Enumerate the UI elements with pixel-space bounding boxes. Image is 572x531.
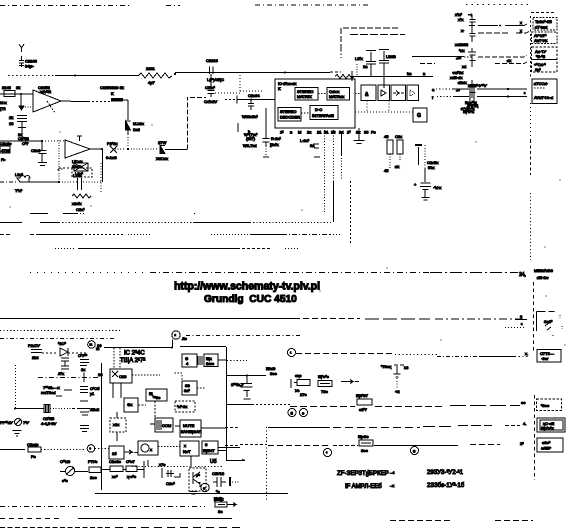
wire into IC pin y99 — [225, 96, 275, 104]
node: wire corner up right of top-left — [341, 28, 405, 58]
node pin circle 1 — [288, 349, 296, 357]
sub-block dashed C — [110, 412, 126, 441]
svg-text:ТиЗ≤²·ЗБ: ТиЗ≤²·ЗБ — [535, 19, 552, 24]
wire: UB supply — [210, 459, 245, 465]
svg-text:W³(7)x³: W³(7)x³ — [244, 132, 258, 137]
resistor D2265 — [358, 434, 373, 453]
amplifier box row A3 — [391, 85, 406, 101]
svg-text:2k: 2k — [16, 85, 20, 90]
svg-text:³7Зеҳ: ³7Зеҳ — [381, 364, 391, 369]
svg-text:x2x: x2x — [113, 422, 119, 427]
ground below C2254 — [422, 198, 430, 201]
connector box J1a ceKo — [533, 18, 557, 31]
node: dashed branch at x240 — [240, 72, 262, 91]
svg-text:2²: 2² — [520, 441, 524, 446]
sub-block dc interface — [301, 106, 338, 120]
scan speckles — [9, 124, 565, 418]
bus wire y248 — [55, 248, 300, 250]
diode D2260 — [58, 341, 88, 356]
wire: bottom dashed line y527 — [0, 527, 240, 529]
svg-text:C2253220 3k: C2253220 3k — [100, 85, 124, 90]
svg-text:АУ≥Т·Уо·≤: АУ≥Т·Уо·≤ — [534, 95, 554, 100]
amplifier box row A2 — [378, 85, 390, 101]
svg-text:kЗ: kЗ — [404, 365, 409, 370]
svg-text:50x: 50x — [428, 165, 434, 170]
wire: vertical dotted x266 — [240, 427, 267, 500]
svg-text:x·: x· — [461, 28, 464, 33]
svg-text:Щ³З²≤: Щ³З²≤ — [463, 109, 475, 114]
svg-text:x≤2262: x≤2262 — [455, 42, 469, 47]
transistor Q2301 — [189, 468, 206, 494]
svg-text:≤2≤x: ≤2≤x — [458, 80, 467, 85]
node pin circle 3 — [324, 449, 332, 457]
svg-text:D·C: D·C — [315, 107, 322, 112]
svg-text:³: ³ — [326, 451, 328, 456]
svg-text:IC 2³4С: IC 2³4С — [124, 351, 145, 357]
capacitor C2265 — [244, 108, 281, 157]
svg-text:С2x≤е: С2x≤е — [27, 442, 39, 447]
sub-block mid 55 — [174, 373, 205, 395]
svg-text:C2x³: C2x³ — [76, 207, 85, 212]
svg-text:РР²³≤У: РР²³≤У — [0, 420, 13, 425]
svg-text:Л²x: Л²x — [58, 371, 64, 376]
connector box IC socket — [537, 418, 565, 432]
svg-text:е³е: е³е — [62, 478, 69, 483]
svg-text:еЗе²: еЗе² — [542, 440, 551, 445]
svg-text:¹2С³: ¹2С³ — [58, 341, 66, 346]
capacitor C2261 — [58, 358, 69, 376]
connector box J3 video/audio — [532, 79, 557, 104]
svg-text:2x: 2x — [356, 130, 360, 135]
svg-text:MATR≤x: MATR≤x — [329, 94, 344, 99]
wire pair to connector J1 — [478, 20, 529, 33]
node pin circles 5 6 — [288, 409, 308, 417]
op-amp U2201 — [20, 85, 71, 113]
wire: IC pin drop x333 — [333, 130, 335, 222]
svg-text:27W: 27W — [158, 140, 166, 145]
amplifier box row A4 — [407, 85, 419, 101]
diode D2202 — [126, 121, 144, 149]
wire: bottom right dashes y520 — [390, 520, 533, 522]
box G detector — [355, 94, 427, 123]
capacitor C2016 — [212, 471, 240, 494]
wire: dotted line y330 — [0, 330, 120, 332]
sub-block stereo matrix — [295, 88, 318, 101]
svg-text:З: З — [291, 411, 294, 416]
svg-text:4: 4 — [186, 361, 189, 366]
svg-text:xxV42: xxV42 — [40, 89, 52, 94]
antenna stub V2201 — [19, 44, 24, 52]
capacitor C2723 — [78, 353, 89, 372]
labels below video pair — [463, 83, 487, 114]
svg-text:hn: hn — [407, 71, 411, 76]
svg-text:≤ТСО≤·: ≤ТСО≤· — [534, 81, 548, 86]
capacitor C2215 — [355, 51, 376, 77]
IC pin numbers bottom row — [280, 130, 376, 135]
sub-block top mid Dx — [204, 354, 226, 367]
connector stubs left edge — [0, 100, 11, 162]
svg-text:x7е: x7е — [159, 462, 166, 467]
svg-text:Ре: Ре — [31, 454, 36, 459]
svg-text:f: f — [432, 95, 434, 100]
svg-text:–4: –4 — [390, 470, 395, 475]
svg-text:M-x: M-x — [0, 100, 7, 105]
svg-text:7Зе: 7Зе — [321, 389, 329, 394]
wire: second stage input y141 — [0, 136, 65, 146]
wire: pin9 input y449 — [0, 442, 109, 459]
svg-text:Ps: Ps — [371, 130, 376, 135]
connector box tuner — [537, 350, 561, 363]
bus wire y234 — [0, 234, 340, 236]
svg-text:С2е²: С2е² — [166, 481, 175, 486]
svg-text:C²7: C²7 — [22, 141, 29, 146]
resistor R2216 zigzag on wire to IF — [335, 64, 433, 81]
electrolytic capacitor C2380 — [231, 376, 253, 400]
sub-block comp E — [150, 418, 173, 432]
svg-text:34p▸: 34p▸ — [25, 64, 34, 69]
svg-text:Щ2³З7: Щ2³З7 — [356, 393, 369, 398]
capacitor C2259 — [59, 163, 101, 192]
transistor T2 right edge cluster — [505, 282, 562, 352]
bus wire y222 — [0, 222, 333, 224]
sub-block dashed F — [175, 401, 195, 412]
svg-text:МЕЗ≥²≤ЗЗ: МЕЗ≥²≤ЗЗ — [534, 268, 553, 273]
wire: bottom solid line y518 — [0, 518, 232, 520]
svg-text:F▸: F▸ — [1, 157, 5, 162]
svg-text:M.≥2x: M.≥2x — [133, 121, 144, 126]
resistor R2201 (zigzag on main wire) — [138, 66, 172, 85]
svg-text:е: е — [302, 411, 305, 416]
svg-text:Ле: Ле — [182, 336, 188, 341]
svg-text:L(Р)АЩС: L(Р)АЩС — [207, 77, 224, 82]
svg-text:··:: ··: — [468, 12, 472, 17]
svg-text:¹¹: ¹¹ — [90, 343, 93, 348]
svg-text:е2³7: е2³7 — [359, 407, 368, 412]
svg-text:С2З: С2З — [119, 374, 127, 379]
wire: long separator line y318 — [0, 318, 525, 321]
wire to connector J2 — [412, 56, 527, 64]
svg-text:M: M — [298, 130, 301, 135]
svg-text:¹: ¹ — [290, 351, 292, 356]
svg-text:G: G — [417, 113, 421, 119]
svg-text:30: 30 — [364, 130, 369, 135]
node pin circle 2 at top of IF IC — [172, 331, 188, 341]
wire: top pin wire y347 — [96, 340, 226, 352]
inductor L2262 label — [300, 138, 320, 157]
svg-text:IF AМРЛ·ЕЕб: IF AМРЛ·ЕЕб — [345, 484, 382, 490]
svg-text:2x: 2x — [81, 367, 85, 372]
wire: feedback riser x187 — [188, 97, 207, 150]
svg-text:29ЗУЗ·³У2·¹1: 29ЗУЗ·³У2·¹1 — [427, 470, 464, 476]
svg-text:1²³бx,У: 1²³бx,У — [231, 382, 244, 387]
wire: line from pin1 to tuner box — [296, 351, 530, 357]
svg-text:C2x8: C2x8 — [31, 148, 41, 153]
svg-text:ҳ·е³е: ҳ·е³е — [127, 474, 137, 479]
svg-text:27е: 27е — [300, 392, 307, 397]
sub-block osc H — [130, 441, 180, 455]
svg-text:ZF·ЗEРЗТქБРКЕР: ZF·ЗEРЗТქБРКЕР — [337, 470, 389, 477]
arrow mark — [341, 380, 359, 384]
svg-text:2еге: 2еге — [206, 361, 215, 366]
svg-text:З: З — [413, 449, 416, 454]
svg-text:K: K — [111, 91, 114, 96]
svg-text:2³: 2³ — [347, 130, 351, 135]
svg-text:С²³≤З: С²³≤З — [60, 459, 71, 464]
sub-block vert K — [202, 441, 240, 454]
svg-text:x.: x. — [525, 351, 528, 356]
IF IC block IC2560 TDA2170 — [102, 347, 227, 490]
svg-text:Cx²x2V: Cx²x2V — [204, 99, 217, 104]
wire: line y445 — [225, 441, 524, 446]
diode D2204 — [128, 140, 187, 161]
amplifier box row A1 — [361, 85, 376, 101]
svg-text:³Б·¹Б: ³Б·¹Б — [536, 54, 546, 59]
potentiometer P2202 — [106, 141, 129, 160]
svg-text:·Зег: ·Зег — [541, 356, 549, 361]
svg-text:4.: 4. — [523, 421, 526, 426]
svg-text:≤x: ≤x — [507, 58, 511, 63]
label C2228 — [41, 416, 57, 426]
top border dashed line — [0, 5, 556, 18]
svg-text:0-1uS: 0-1uS — [106, 155, 117, 160]
connector box J1b — [532, 32, 558, 44]
sub-block NF J — [180, 441, 199, 456]
svg-text:4·4,5·5V: 4·4,5·5V — [41, 421, 57, 426]
capacitor C2218 on main wire — [206, 58, 224, 82]
wire: right edge dashed vertical bottom — [534, 395, 536, 480]
svg-text:2k4: 2k4 — [32, 355, 39, 360]
svg-text:INTERFA≤E: INTERFA≤E — [312, 113, 334, 118]
ground at IC pin 26 — [354, 128, 365, 144]
svg-text:Л²≤³Щ: Л²≤³Щ — [467, 103, 478, 108]
svg-text:24,: 24, — [519, 272, 526, 278]
svg-text:²: ² — [175, 333, 177, 338]
svg-text:n: n — [290, 130, 292, 135]
svg-text:C2²x²: C2²x² — [205, 85, 215, 90]
svg-text:L·2x²: L·2x² — [300, 138, 310, 143]
svg-text:x³x: x³x — [458, 17, 463, 22]
wire: dash-dot into pin 2 — [0, 336, 300, 339]
capacitor C2219 — [204, 74, 240, 104]
capacitor C2352 — [159, 462, 180, 486]
svg-text:n: n — [423, 71, 425, 76]
IC U2200 main block — [275, 79, 355, 128]
svg-text:⊝x: ⊝x — [127, 402, 132, 407]
connector box AFC — [537, 399, 562, 411]
svg-text:x≤: x≤ — [462, 64, 467, 69]
svg-text:C2x: C2x — [395, 134, 402, 139]
svg-text:2ее: 2ее — [90, 475, 97, 480]
svg-text:45: 45 — [384, 134, 389, 139]
wire: input y408 — [14, 405, 98, 413]
resistor C2253 220k output network — [71, 85, 128, 120]
svg-text:P2²2x: P2²2x — [107, 141, 117, 146]
node pin circle 5b — [411, 447, 419, 455]
svg-text:2ЗЗбе·1У²·1б: 2ЗЗбе·1У²·1б — [427, 483, 465, 489]
svg-text:1n: 1n — [363, 64, 367, 69]
svg-text:+: + — [414, 182, 417, 187]
wire: bottom-left dash-dot y506 — [0, 497, 236, 515]
svg-text:[2x²x: [2x²x — [270, 142, 279, 147]
resistor D2230 — [318, 374, 332, 394]
svg-text:LΒ2B: LΒ2B — [386, 54, 396, 59]
resistor R2248 on op-amp input — [0, 85, 33, 97]
capacitor C2247 stack below op-amp — [9, 94, 27, 140]
svg-text:≥Л²≤³·У³¹У: ≥Л²≤³·У³¹У — [468, 83, 487, 88]
svg-text:DECODER: DECODER — [280, 115, 300, 120]
capacitor divider 375x — [381, 364, 409, 394]
svg-text:2248: 2248 — [2, 85, 12, 90]
svg-text:²: ² — [521, 322, 523, 327]
capacitor C2264 — [238, 93, 260, 148]
svg-text:C²7²³: C²7²³ — [78, 353, 88, 358]
svg-text:Зее: Зее — [270, 371, 278, 376]
node pin circle 11 — [88, 341, 103, 349]
resistor R2346 — [88, 459, 101, 480]
svg-text:4p7: 4p7 — [148, 80, 155, 85]
svg-text:45: 45 — [384, 168, 389, 173]
filter box L2205 — [58, 163, 88, 172]
svg-text:Зе: Зе — [218, 509, 223, 514]
wire: right edge dashed vertical middle — [530, 140, 532, 260]
svg-text:Grundig CUC 4510: Grundig CUC 4510 — [204, 294, 297, 305]
electrolytic C2264b — [80, 407, 100, 432]
wire pair video out to J3 — [432, 84, 527, 101]
svg-text:IC·2²xx·≤x: IC·2²xx·≤x — [278, 81, 296, 86]
svg-text:МUТЕ: МUТЕ — [183, 423, 195, 428]
sub-block mute bandgap G — [175, 420, 226, 437]
svg-text:Uб: Uб — [210, 459, 217, 465]
svg-text:²≤x: ²≤x — [459, 48, 465, 53]
wire: dashed line y406 — [227, 400, 526, 407]
capacitor C2256 — [415, 145, 438, 175]
dashed horizontal pin 16 — [16, 365, 104, 408]
svg-text:C2218: C2218 — [206, 58, 219, 63]
svg-text:БАНЩGАП: БАНЩGАП — [181, 429, 202, 434]
resistor R2262 vertical pair — [384, 134, 403, 173]
caption part numbers — [427, 470, 465, 489]
caption ZF-VERSTAERKER — [337, 470, 395, 490]
wire: right edge dashed vertical top — [530, 16, 532, 140]
svg-text:http://www.schematy-tv.piv.pl: http://www.schematy-tv.piv.pl — [174, 281, 320, 293]
label group 773Gb — [41, 385, 72, 396]
wire: IC pin drop x324 — [324, 130, 326, 212]
wire: measurement dash-dot line y272 — [30, 268, 553, 280]
svg-text:гекТЗе≤: гекТЗе≤ — [41, 390, 56, 395]
wire: AGC y375 right of IC — [227, 361, 278, 377]
svg-text:2¹: 2¹ — [280, 130, 284, 135]
capacitor C2266 u1 — [80, 386, 100, 401]
svg-text:У³: У³ — [196, 473, 201, 478]
wire: IC pin drop x350 — [350, 181, 352, 245]
svg-text:Щx²е²x: Щx²е²x — [541, 426, 554, 431]
svg-text:21: 21 — [317, 130, 322, 135]
sub-block top mid 7-4 — [182, 354, 202, 367]
node pin circle 10 — [201, 483, 209, 491]
svg-text:²: ² — [524, 91, 526, 96]
svg-text:L2x²: L2x² — [15, 172, 23, 177]
svg-text:³: ³ — [90, 447, 92, 452]
svg-text:Зx²: Зx² — [184, 388, 190, 393]
svg-text:C2x8s: C2x8s — [0, 141, 11, 146]
svg-text:1ud: 1ud — [133, 127, 140, 132]
svg-text:≤Е·Зx·: ≤Е·Зx· — [537, 275, 549, 280]
svg-text:С2еЗе: С2еЗе — [109, 459, 122, 464]
svg-text:a: a — [432, 87, 435, 92]
svg-text:xе³: xе³ — [112, 474, 118, 479]
svg-text:K: K — [278, 86, 281, 91]
svg-text:2k: 2k — [9, 115, 13, 120]
sub-block D 1257 — [138, 389, 167, 418]
svg-text:С²е7: С²е7 — [126, 459, 135, 464]
capacitor C2257 to ground — [31, 141, 47, 166]
resistor network x7x — [291, 373, 310, 397]
svg-text:Л2x≤: Л2x≤ — [90, 407, 100, 412]
svg-text:Зее: Зее — [361, 448, 369, 453]
feedback network R2255 below op-amp U2202 — [59, 159, 92, 177]
svg-text:x: x — [184, 443, 186, 448]
svg-text:Е2З≤: Е2З≤ — [214, 497, 224, 502]
sub-block demod A — [110, 348, 160, 383]
svg-text:1б: 1б — [112, 451, 117, 456]
svg-text:Щ²е³е: Щ²е³е — [318, 374, 330, 379]
sub-block input I — [109, 446, 132, 459]
svg-text:ЩеЗе: ЩеЗе — [358, 434, 369, 439]
site caption text — [174, 281, 320, 306]
capacitor C2216 — [379, 50, 396, 89]
bus wire y213 — [30, 213, 197, 215]
resistor R2347 pair — [101, 459, 144, 479]
svg-text:STEREO: STEREO — [280, 109, 296, 114]
svg-text:NеТ: NеТ — [183, 449, 191, 454]
wire: main audio line to the right — [174, 72, 341, 76]
coil L2263 cluster — [456, 80, 477, 111]
svg-text:x: x — [520, 28, 522, 33]
svg-text:X≤C≤x: X≤C≤x — [156, 156, 168, 161]
svg-text:С2У16: С2У16 — [212, 471, 225, 476]
svg-text:Р2≤7У: Р2≤7У — [28, 343, 40, 348]
svg-text:[72: [72 — [0, 106, 6, 111]
resistor R2270 2k4 — [28, 343, 58, 360]
capacitor C2246 34p — [19, 56, 38, 69]
svg-text:2201: 2201 — [146, 66, 156, 71]
svg-text:еҳе: еҳе — [295, 373, 302, 378]
svg-text:+2: +2 — [395, 389, 400, 394]
svg-text:MATRIX: MATRIX — [297, 94, 312, 99]
connector box J2 — [532, 47, 558, 72]
svg-text:TЩA 2¹7²: TЩA 2¹7² — [120, 358, 145, 364]
svg-text:x: x — [520, 20, 522, 25]
svg-text:T²x²: T²x² — [15, 188, 23, 193]
svg-text:СОМ: СОМ — [162, 423, 171, 428]
svg-text:W32x5x¹: W32x5x¹ — [242, 114, 258, 119]
svg-text:З: З — [205, 442, 208, 447]
svg-text:16: 16 — [98, 372, 103, 377]
svg-text:R·2x¹: R·2x¹ — [271, 136, 281, 141]
svg-text:0: 0 — [520, 314, 523, 319]
svg-text:≤Т·≥x≤: ≤Т·≥x≤ — [535, 25, 548, 30]
potentiometer P2340 — [0, 419, 30, 426]
svg-text:C2x64: C2x64 — [248, 93, 260, 98]
electrolytic capacitor C2254 — [414, 168, 441, 197]
svg-text:Р7Уе: Р7Уе — [88, 459, 98, 464]
svg-text:–x: –x — [390, 483, 394, 488]
wire: main audio line left segment — [8, 75, 138, 77]
wire: IC pin drop x341 — [341, 131, 343, 180]
sub-block stereo decoder — [278, 108, 301, 122]
coil L2261 cluster — [450, 48, 476, 80]
op-amp U2202 — [59, 136, 103, 182]
